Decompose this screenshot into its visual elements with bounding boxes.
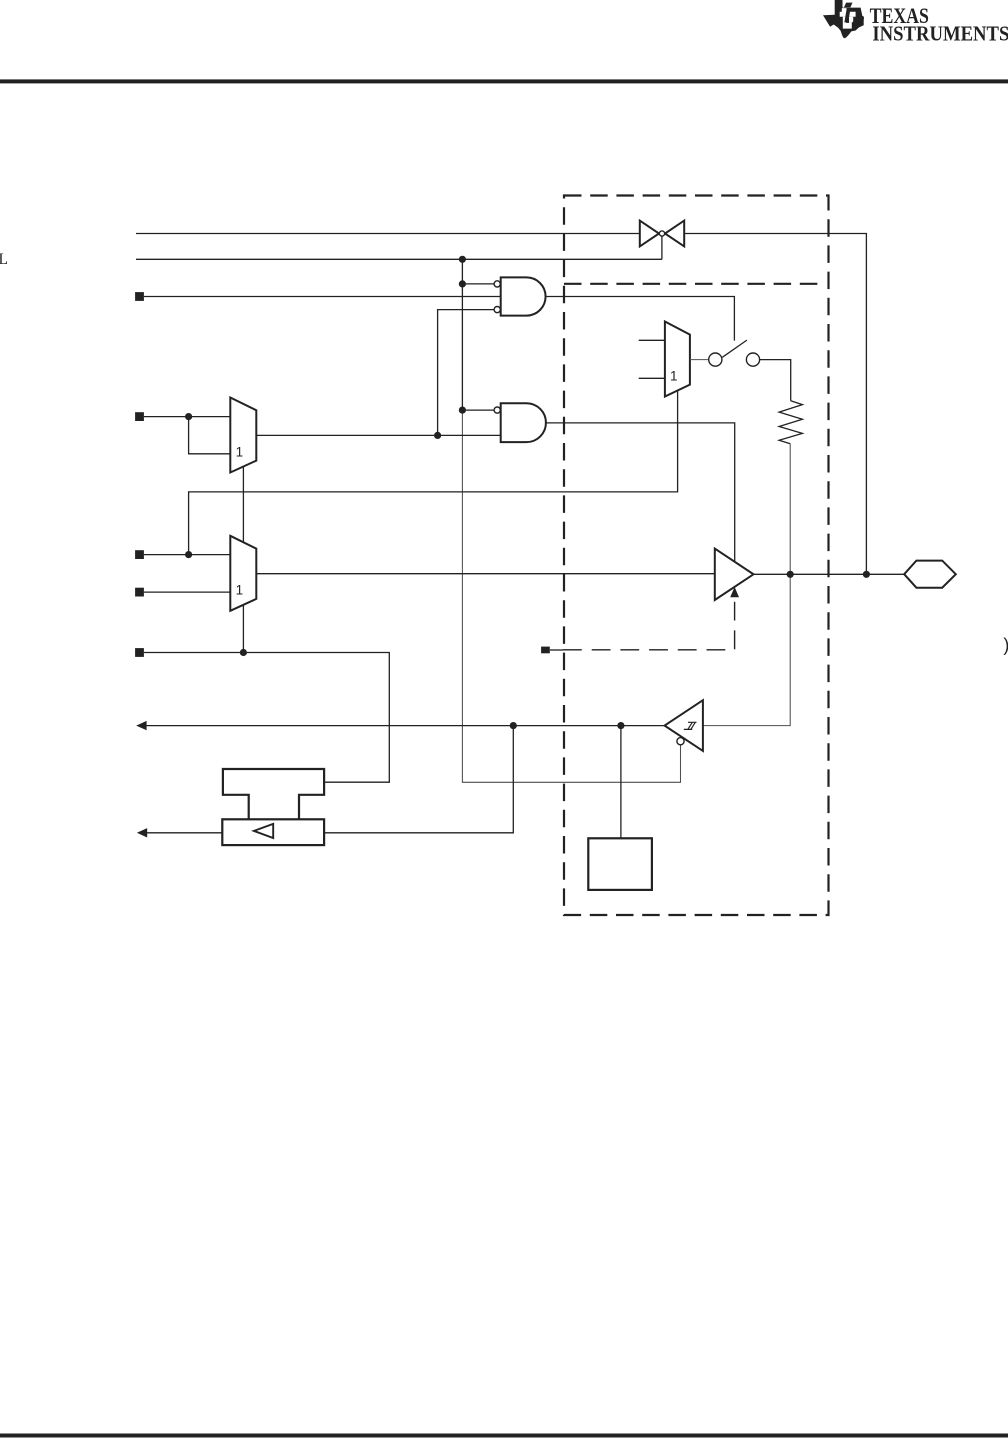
arrowhead input path left (136, 721, 146, 730)
block B1 (588, 838, 652, 890)
bubble G2 top input (494, 407, 500, 413)
node IN2 branch (185, 551, 192, 558)
stub M3 input A (639, 339, 665, 341)
footer rule (0, 1434, 1008, 1438)
node output pin tap (863, 571, 870, 578)
transmission gate U5 (640, 221, 684, 247)
wire net A top horizontal (136, 233, 640, 235)
node input to delay box (510, 722, 517, 729)
node IN4 select tap (240, 649, 247, 656)
wire pad IN2 to mux M2 (144, 554, 230, 556)
wire node to delay buffer D1 (324, 726, 513, 833)
latch T1 tee-shaped block (223, 769, 324, 819)
svg-text:1: 1 (670, 369, 678, 384)
wire enable trunk lower to Schmitt bubble (462, 410, 680, 782)
bubble G1 bottom input (494, 307, 500, 313)
node input to block B1 (617, 722, 624, 729)
AND gate G2 (501, 403, 546, 442)
wire pad IN0 to gate G1 (144, 296, 501, 298)
pin P1 hexagon pad (904, 561, 956, 588)
input pad IN3 (135, 588, 144, 597)
wire pad IN3 to mux M2 input B (144, 591, 230, 593)
wire control stub (550, 649, 563, 651)
input pad IN4 (135, 648, 144, 657)
outer dashed box (564, 196, 829, 916)
mux M2 (230, 536, 256, 611)
delay buffer D1 box (222, 819, 324, 845)
wire buffer output to pin (754, 573, 905, 575)
AND gate G1 (501, 277, 546, 315)
svg-text:L: L (0, 251, 8, 268)
arrowhead control into buffer (730, 587, 739, 597)
dashed control wire to buffer (563, 599, 735, 650)
wire gate G2 output to buffer gate (545, 423, 735, 562)
node IN1 branch (185, 413, 192, 420)
header rule (0, 79, 1008, 83)
svg-text:INSTRUMENTS: INSTRUMENTS (872, 23, 1008, 46)
arrowhead delay path left (137, 828, 147, 837)
resistor R1 pullup (779, 401, 802, 444)
wire enable trunk upper (461, 259, 463, 410)
node M1 output branch (434, 432, 441, 439)
wire select through M2 (242, 605, 244, 653)
node on net B (459, 256, 466, 263)
Schmitt trigger U3 (665, 700, 703, 751)
node output pullup tap (787, 571, 794, 578)
wire pad IN4 select line and branch to latch T1 (144, 653, 389, 783)
wire gate G2 top input (462, 409, 494, 411)
wire pad IN1 to mux M1 (144, 416, 230, 418)
control dashed source pad (541, 647, 550, 654)
input pad IN1 (135, 412, 144, 421)
wire D1 output to left arrow (147, 832, 223, 834)
bubble G1 top input (494, 281, 500, 287)
wire IN2 branch to mux M3 select (189, 391, 678, 555)
wire gate G1 output to switch arm (546, 297, 735, 341)
wire mux M2 output to output buffer (256, 573, 715, 575)
wire from transmission gate to output column (684, 234, 866, 575)
wire IN1 branch to M1 input B (189, 417, 231, 454)
svg-text:1: 1 (236, 444, 244, 459)
input pad IN0 (135, 292, 144, 301)
node G1 top input tap (459, 280, 466, 287)
wire switch to resistor (760, 360, 791, 401)
stub M3 input B (639, 377, 665, 379)
wire net B control horizontal (136, 258, 662, 260)
wire resistor bottom to pad node and Schmitt input (703, 444, 790, 726)
output buffer U2 (715, 549, 754, 600)
input pad IN2 (135, 550, 144, 559)
wire mux M1 output (256, 434, 500, 436)
node G2 top input tap (459, 407, 466, 414)
mux M3 (665, 322, 690, 397)
svg-text:1: 1 (236, 583, 244, 598)
wire node to block B1 (620, 726, 622, 839)
wire gate G1 bottom input (438, 310, 494, 436)
triangle glyph in D1 (254, 824, 273, 838)
svg-text:): ) (1003, 635, 1008, 655)
wire Schmitt output to left arrow (146, 725, 665, 727)
TI logo Texas-map glyph (823, 0, 864, 38)
inner dashed partition line (564, 283, 817, 285)
mux M1 (230, 398, 256, 473)
wire gate G1 top input (462, 283, 494, 285)
switch S1 (709, 340, 760, 366)
wire select through M1 (242, 467, 244, 543)
wire mux M3 output (690, 359, 709, 361)
wire transmission-gate control stub (661, 236, 663, 259)
